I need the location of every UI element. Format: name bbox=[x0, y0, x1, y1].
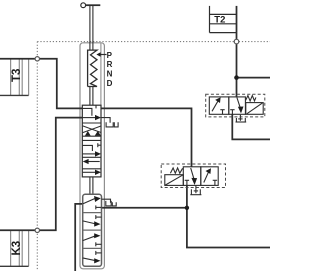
svg-text:P: P bbox=[107, 51, 113, 60]
svg-text:N: N bbox=[107, 70, 113, 79]
svg-text:D: D bbox=[107, 79, 113, 88]
svg-text:K3: K3 bbox=[11, 241, 23, 256]
svg-text:R: R bbox=[107, 60, 113, 69]
svg-text:T3: T3 bbox=[11, 69, 23, 82]
svg-text:T2: T2 bbox=[214, 15, 225, 26]
